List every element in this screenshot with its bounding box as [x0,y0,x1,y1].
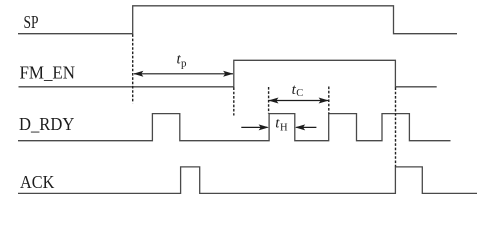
svg-text:D_RDY: D_RDY [19,114,74,134]
svg-text:p: p [181,57,187,69]
svg-text:SP: SP [24,12,39,32]
svg-text:C: C [296,88,303,99]
svg-text:H: H [280,123,288,134]
svg-text:ACK: ACK [20,172,54,192]
svg-text:FM_EN: FM_EN [20,62,76,82]
